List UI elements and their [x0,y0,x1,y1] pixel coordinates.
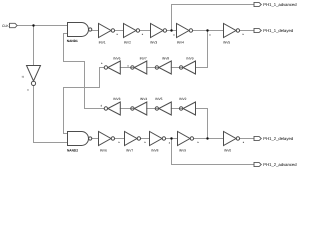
junction tap bottom [170,137,172,139]
junction cross top [206,29,208,31]
svg-text:NAND2: NAND2 [67,148,78,152]
svg-text:INV3: INV3 [150,40,157,44]
svg-text:INV7: INV7 [126,148,133,152]
nand NAND1 [68,23,89,37]
wire tap up to PH1_1_advanced rail [172,5,255,31]
wire INV G to INV H [141,138,150,140]
wire INV D to INV E [193,30,224,32]
svg-text:PH1_1_advanced: PH1_1_advanced [263,2,297,7]
inverter D [177,24,190,38]
wire NAND2 out to INV F [92,138,99,140]
svg-text:CLK: CLK [2,24,9,28]
wire NAND1 feedback input from row3 inverter output [64,34,105,109]
inverter I0 pointing down [27,66,41,82]
svg-text:INV3: INV3 [113,97,120,101]
wire junction CLK down to inverter I0 [33,26,35,66]
wire NAND1 out to INV A [92,30,99,32]
inverter Z2 pointing left [183,102,196,115]
svg-text:INV6: INV6 [100,148,107,152]
inverter W pointing left [108,61,121,74]
svg-text:INV9: INV9 [186,57,193,61]
inverter Y pointing left [159,61,172,74]
port CLK input [10,23,18,27]
port PH1_2_delayed [254,136,261,140]
wire CLK to NAND1 top input [17,25,67,27]
port PH1_1_advanced [254,2,261,6]
inverter W2 pointing left [108,102,121,115]
wire row2 inverter output to NAND2 top input [64,68,105,134]
wire INV I to INV J [194,138,224,140]
svg-text:INV7: INV7 [140,57,147,61]
svg-text:INV4: INV4 [177,40,184,44]
wire row3 Z2 to Y2 [171,108,183,110]
wire INV F to INV G [115,138,125,140]
wire tap down to PH1_2_advanced rail [172,139,255,165]
wire INV A to INV B [115,30,124,32]
svg-text:INV9: INV9 [179,148,186,152]
inverter J [224,132,237,146]
wire row3 X2 to W2 [120,108,134,110]
svg-text:NAND1: NAND1 [67,39,78,43]
inverter C [151,24,164,38]
port PH1_1_delayed [254,28,261,32]
wire INV H to INV I [166,138,178,140]
svg-text:INV6: INV6 [113,57,120,61]
svg-text:INV1: INV1 [99,40,106,44]
svg-text:INV2: INV2 [124,40,131,44]
inverter X pointing left [134,61,147,74]
wire INV E to port PH1_1_delayed [240,30,254,32]
svg-text:PH1_2_advanced: PH1_2_advanced [263,162,297,167]
svg-text:INV8: INV8 [151,148,158,152]
wire INV J to port PH1_2_delayed [240,138,254,140]
wire cross vertical top chain down to row2 input [196,31,208,68]
wire I0 output down to NAND2 bottom input [34,86,68,143]
inverter Y2 pointing left [159,102,172,115]
port PH1_2_advanced [254,162,261,166]
inverter A [99,24,112,38]
wire row2 X to W [120,67,134,69]
inverter G [125,132,138,146]
wire row2 Y to X [147,67,159,69]
svg-text:INV5: INV5 [223,40,230,44]
inverter Z pointing left [183,61,196,74]
wire row2 Z to Y [171,67,183,69]
inverter X2 pointing left [134,102,147,115]
inverter E [224,24,237,38]
svg-text:INV8: INV8 [162,57,169,61]
svg-text:PH1_1_delayed: PH1_1_delayed [263,28,293,33]
inverter B [124,24,137,38]
junction tap top [170,29,172,31]
wire INV C to INV D [167,30,177,32]
svg-text:INV4: INV4 [140,97,147,101]
inverter F [99,132,112,146]
wire INV B to INV C [140,30,151,32]
svg-text:PH1_2_delayed: PH1_2_delayed [263,136,293,141]
inverter I [178,132,191,146]
wire row3 input from bottom chain junction [196,109,208,139]
svg-text:INV5: INV5 [155,97,162,101]
svg-text:INV0: INV0 [224,148,231,152]
svg-text:INV2: INV2 [179,97,186,101]
junction cross bottom [206,137,208,139]
nand NAND2 [68,132,89,146]
inverter H [150,132,163,146]
wire row3 Y2 to X2 [147,108,159,110]
junction CLK [32,24,34,26]
